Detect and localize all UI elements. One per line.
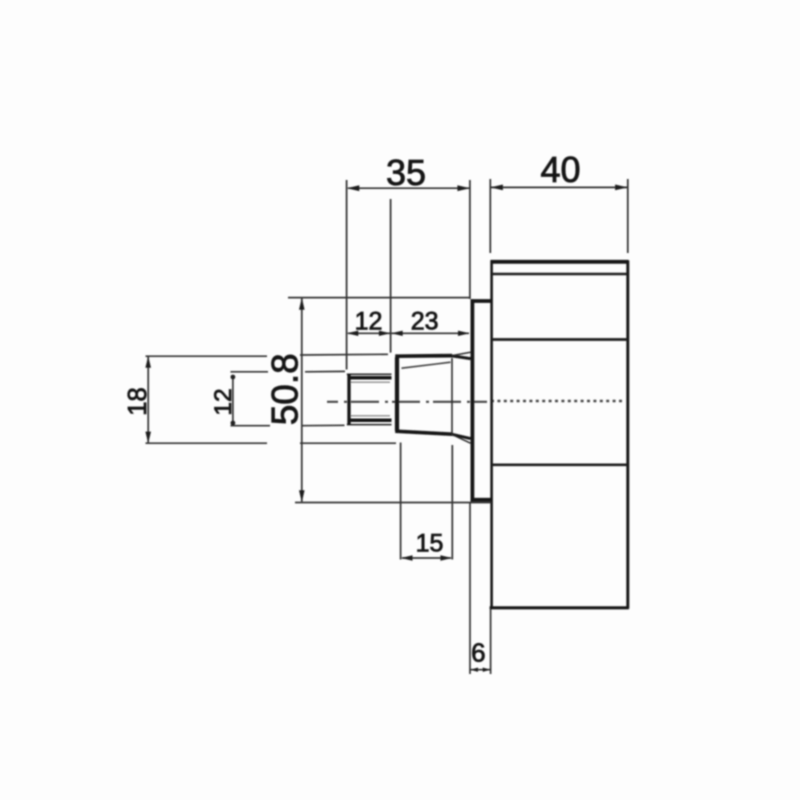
svg-text:12: 12	[355, 308, 383, 336]
body cap line	[492, 273, 628, 275]
cone-collar divider	[451, 358, 453, 434]
dim 18	[146, 354, 397, 443]
cone inner slant	[402, 362, 451, 368]
collar to flange	[452, 352, 471, 443]
dim 23 horizontal	[391, 332, 469, 334]
svg-text:23: 23	[411, 308, 439, 336]
dim 40	[490, 179, 628, 253]
svg-text:12: 12	[210, 388, 237, 415]
svg-text:6: 6	[471, 638, 485, 668]
dim 35	[347, 180, 470, 370]
svg-text:35: 35	[386, 152, 426, 193]
flange plate	[471, 299, 492, 501]
dim 15	[401, 443, 453, 560]
dim 12 23 shared extension	[390, 199, 392, 353]
dim 6	[470, 503, 491, 674]
body outline	[490, 260, 629, 608]
svg-text:18: 18	[124, 387, 152, 415]
svg-text:15: 15	[416, 530, 444, 558]
dim 12 horizontal	[348, 332, 390, 334]
svg-text:40: 40	[540, 149, 580, 190]
dim 50.8	[288, 298, 491, 503]
taper cone	[395, 356, 452, 435]
centerline dotted in body	[491, 400, 624, 403]
dim 12 vertical	[231, 371, 346, 425]
centerline left dash-dot	[327, 401, 487, 403]
svg-text:50.8: 50.8	[264, 353, 305, 425]
threaded tip	[347, 374, 392, 424]
body seam upper	[492, 338, 628, 341]
body seam lower	[492, 463, 628, 466]
